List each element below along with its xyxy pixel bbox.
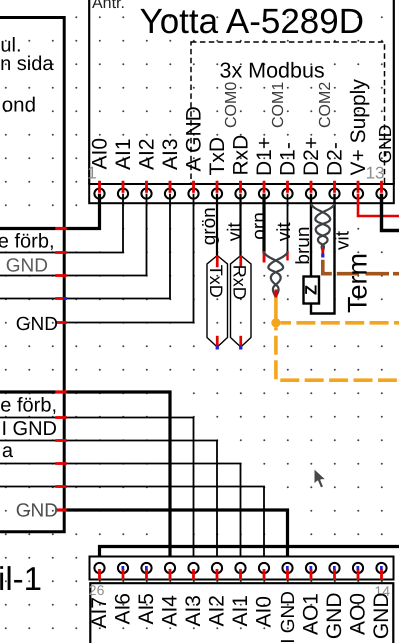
svg-text:RxD: RxD — [229, 265, 249, 300]
wire AI1 — [0, 194, 123, 254]
pin labels X2 — [88, 591, 393, 643]
terminal markers X2 (red) — [98, 569, 383, 580]
terminator Z1 — [303, 277, 321, 304]
svg-text:AI1: AI1 — [229, 595, 252, 627]
svg-text:AI0: AI0 — [89, 138, 112, 170]
wire RxD — [239, 194, 241, 256]
svg-text:D2-: D2- — [324, 142, 347, 176]
wire D2- — [311, 194, 335, 314]
svg-text:A GND: A GND — [183, 106, 206, 171]
svg-text:AI6: AI6 — [112, 593, 135, 625]
svg-text:vit: vit — [274, 222, 295, 242]
svg-text:e förb,: e förb, — [0, 231, 55, 253]
wire orange dashed right — [281, 321, 399, 325]
wire to AI1b — [0, 462, 241, 563]
svg-text:AI4: AI4 — [159, 595, 182, 627]
svg-text:GND: GND — [16, 314, 58, 335]
svg-text:AI0: AI0 — [253, 596, 276, 628]
wire AI3 — [0, 194, 170, 300]
svg-text:D2+: D2+ — [300, 137, 323, 176]
svg-text:Yotta A-5289D: Yotta A-5289D — [140, 2, 364, 41]
svg-text:GND: GND — [16, 501, 58, 522]
svg-text:AI5: AI5 — [135, 593, 158, 625]
svg-text:COM0: COM0 — [223, 82, 240, 128]
svg-text:Z: Z — [303, 285, 321, 295]
wire to AI2b — [0, 439, 217, 563]
svg-text:D1+: D1+ — [253, 137, 276, 176]
svg-text:AI3: AI3 — [182, 595, 205, 627]
svg-text:AI2: AI2 — [206, 595, 229, 627]
3x Modbus group box — [191, 42, 385, 184]
svg-text:3x Modbus: 3x Modbus — [220, 59, 325, 83]
terminal markers X1 (red) — [98, 181, 383, 193]
module U2 (left, partially cut) — [0, 18, 64, 532]
terminals X2 circles — [94, 563, 386, 573]
svg-text:AO0: AO0 — [347, 593, 370, 635]
wire to AI0b — [0, 485, 264, 563]
wire TxD — [216, 194, 218, 256]
wire D1- — [287, 194, 289, 253]
svg-text:AI GND: AI GND — [278, 591, 299, 643]
twisted pair D1 — [264, 253, 288, 298]
mouse cursor — [314, 468, 327, 489]
svg-text:COM2: COM2 — [317, 82, 334, 128]
twisted pair D2 — [311, 204, 335, 252]
svg-text:Antr.: Antr. — [92, 0, 125, 12]
svg-text:GND: GND — [323, 593, 346, 640]
svg-text:il-1: il-1 — [0, 560, 42, 597]
svg-text:ond: ond — [2, 94, 36, 117]
wire orange solid — [274, 298, 278, 322]
svg-text:RxD: RxD — [230, 135, 253, 176]
wire to AI4 (thick) — [0, 390, 170, 563]
svg-text:AI2: AI2 — [136, 138, 159, 170]
svg-text:GND: GND — [375, 125, 395, 164]
wire to AI GND (thick) — [55, 508, 287, 563]
terminal strip X1 (top) — [87, 164, 394, 204]
stub D2 red — [321, 248, 324, 254]
stub D1 red — [275, 290, 278, 298]
svg-text:26: 26 — [89, 582, 105, 598]
svg-text:I GND: I GND — [1, 418, 57, 440]
wire V+ Supply (red) — [358, 194, 399, 216]
wire D1+ (thick) — [262, 194, 265, 253]
svg-text:AI3: AI3 — [159, 138, 182, 170]
svg-text:vit: vit — [225, 222, 246, 242]
wire D2+ — [310, 194, 312, 277]
pin labels X1 — [89, 79, 396, 176]
wire to AI3b — [0, 416, 194, 563]
wire AI7 (thick) — [100, 547, 399, 569]
module U1 Yotta A-5289D — [89, 0, 394, 185]
wire brown — [323, 260, 399, 274]
flag TxD — [206, 256, 228, 350]
svg-text:vit: vit — [332, 230, 353, 250]
wire AI0 (thick) — [0, 194, 100, 230]
svg-text:AO1: AO1 — [300, 593, 323, 635]
svg-text:GND: GND — [6, 255, 48, 276]
module U3 (bottom, partially cut) — [89, 582, 394, 643]
svg-text:TxD: TxD — [206, 137, 229, 176]
svg-text:grön: grön — [199, 207, 220, 245]
terminal strip X2 (bottom) — [90, 557, 394, 580]
svg-text:TxD: TxD — [206, 265, 226, 298]
svg-text:AI7: AI7 — [88, 597, 111, 629]
svg-text:AI1: AI1 — [112, 138, 135, 170]
flag RxD — [229, 256, 251, 350]
terminal markers X2 (blue, unconnected) — [122, 566, 383, 570]
svg-text:a: a — [2, 440, 14, 462]
svg-text:Term: Term — [343, 253, 373, 313]
wire orange dashed down-right — [276, 327, 399, 380]
terminals X1 circles — [94, 189, 386, 199]
junction orange — [271, 318, 280, 327]
svg-text:e förb,: e förb, — [0, 395, 57, 417]
wire GND 13 (thick) — [382, 194, 399, 231]
svg-text:GND: GND — [370, 593, 393, 640]
svg-text:COM1: COM1 — [270, 82, 287, 128]
svg-text:brun: brun — [293, 227, 314, 265]
svg-text:V+ Supply: V+ Supply — [347, 79, 370, 176]
svg-text:orn: orn — [249, 212, 270, 239]
wire A GND — [55, 194, 193, 324]
svg-text:n sida: n sida — [0, 53, 54, 75]
wire AI2 — [0, 194, 147, 277]
svg-text:D1-: D1- — [277, 142, 300, 176]
